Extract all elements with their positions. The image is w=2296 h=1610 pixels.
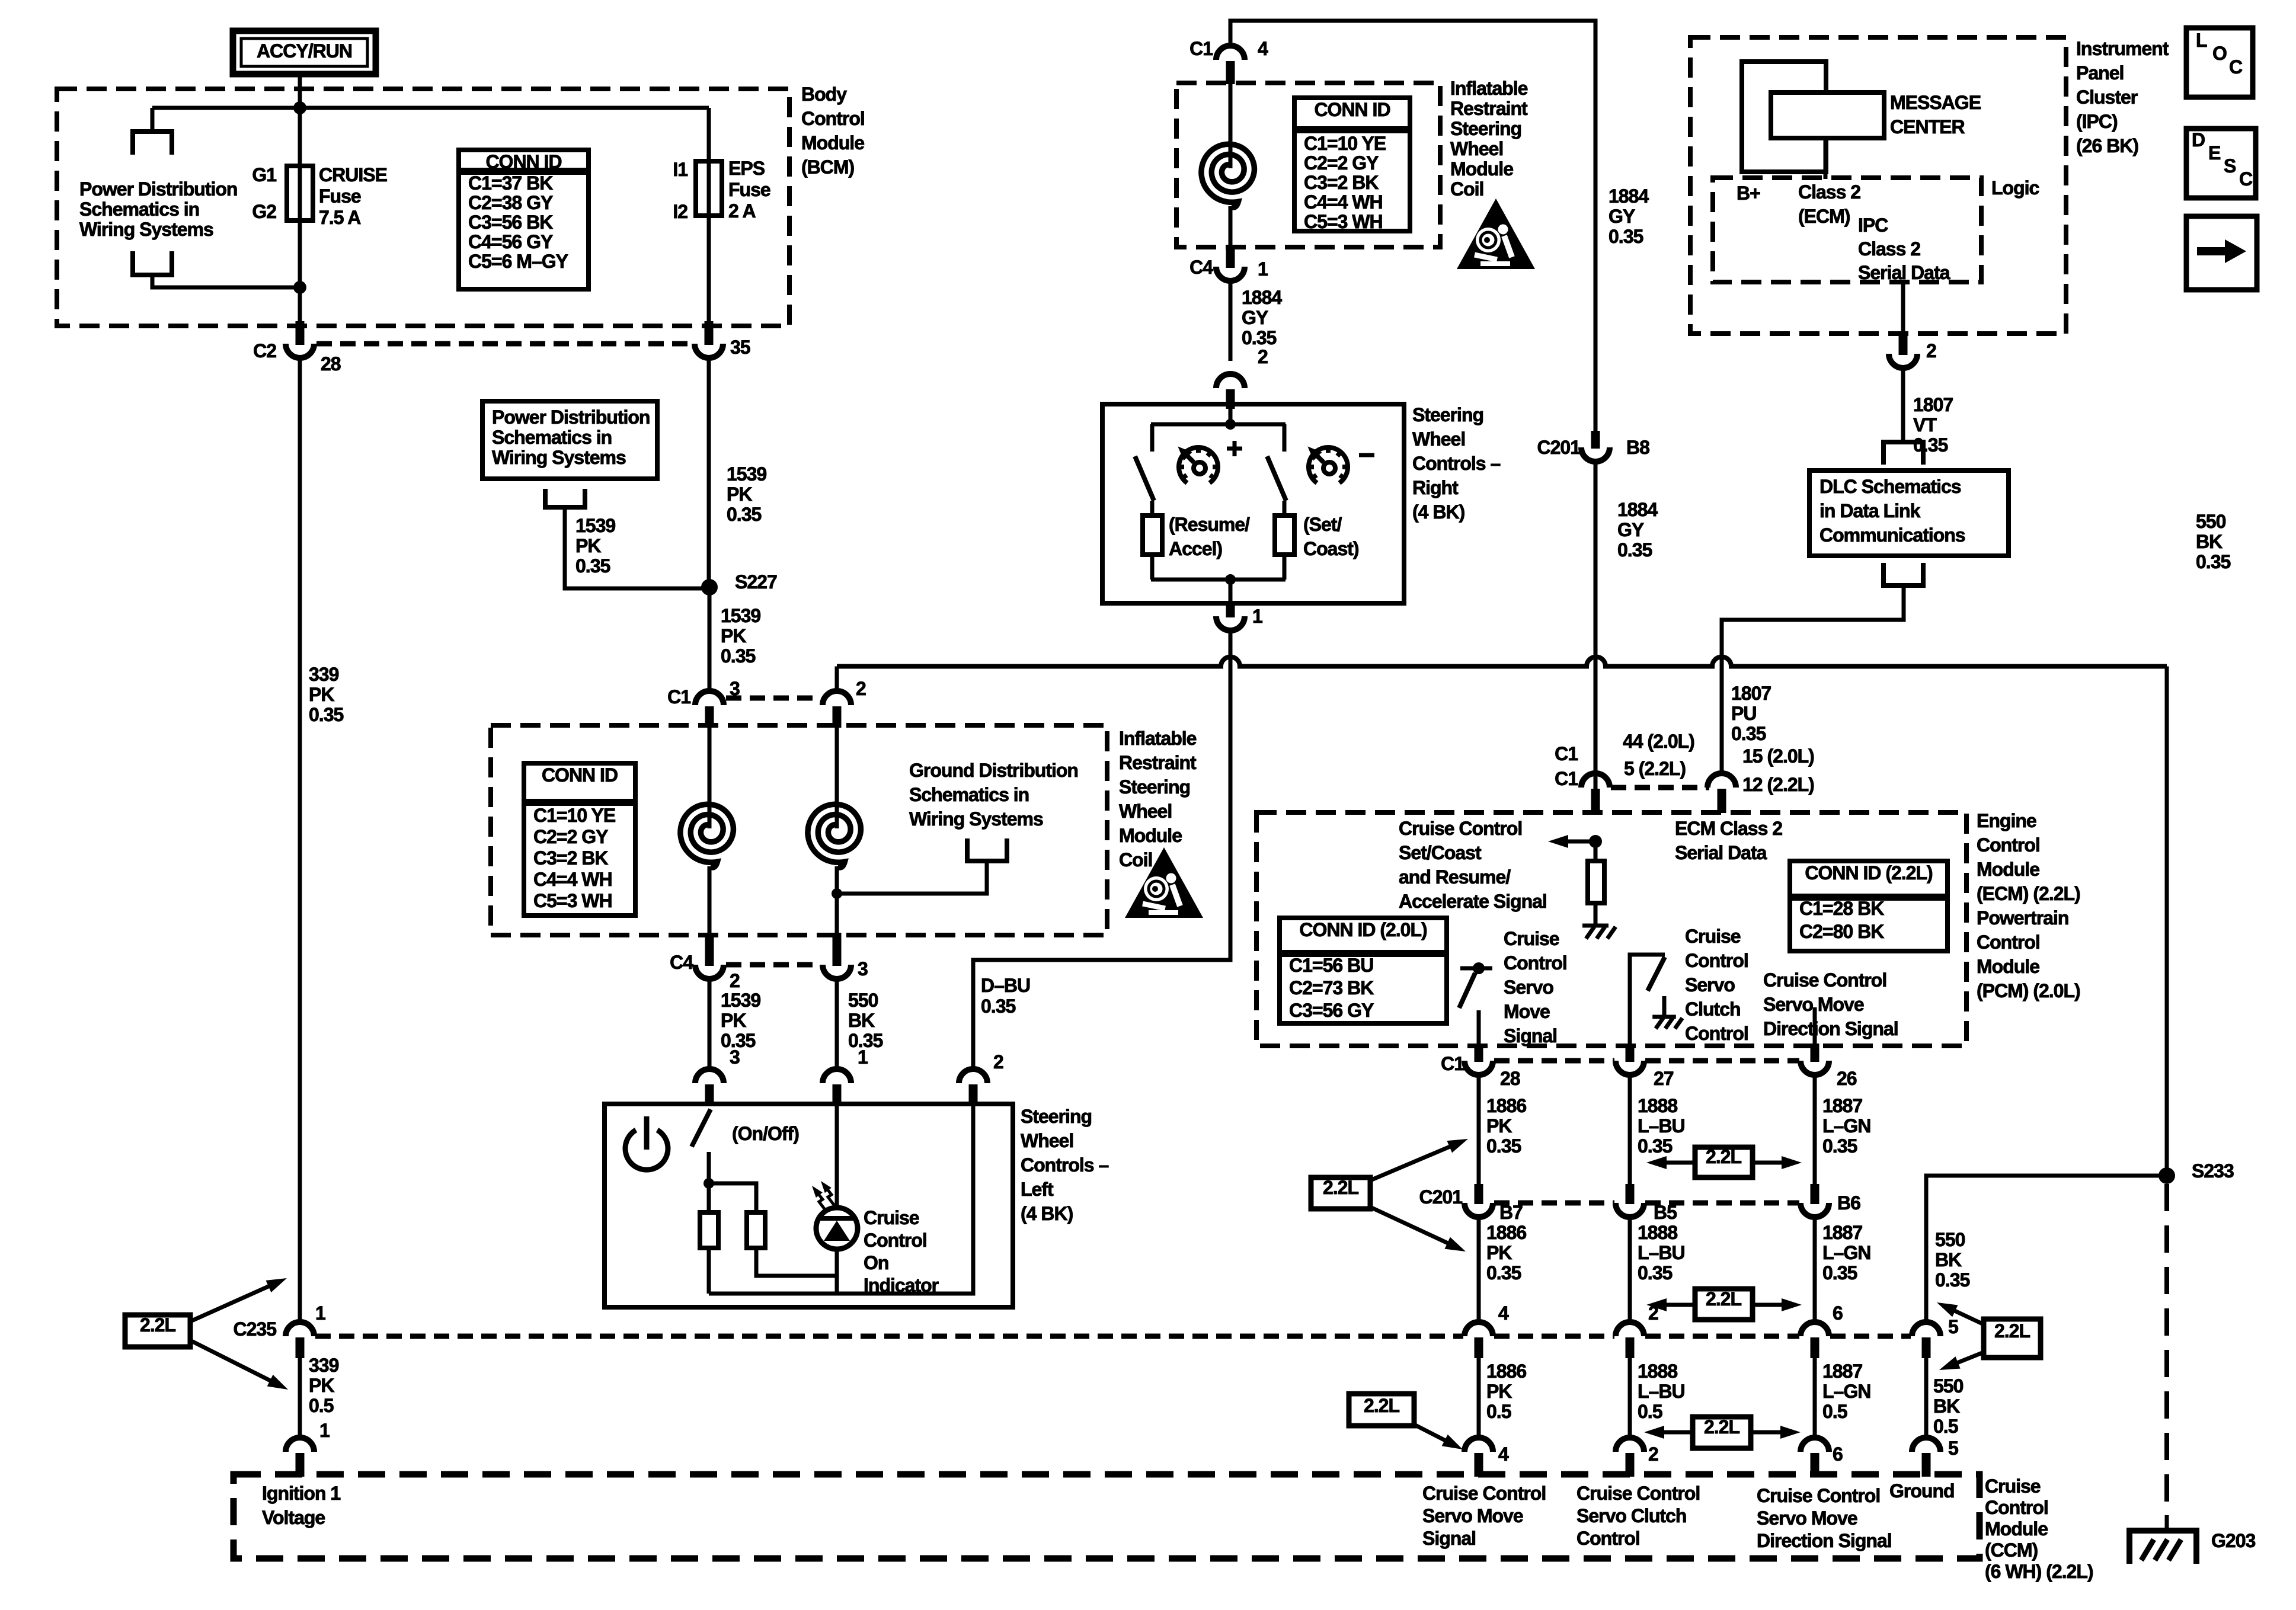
svg-text:BK: BK xyxy=(2196,531,2223,552)
connector line C1-3 to 2 (dashed) xyxy=(726,696,821,701)
svg-text:Module: Module xyxy=(1977,859,2039,880)
svg-text:Wiring Systems: Wiring Systems xyxy=(79,219,213,240)
2.2L flag box (rows 27-26) xyxy=(1695,1147,1753,1177)
svg-text:C1: C1 xyxy=(667,686,690,708)
2.2L arrows (bottom middle) xyxy=(1656,1430,1693,1435)
svg-text:C2=2 GY: C2=2 GY xyxy=(1304,152,1379,174)
svg-text:Servo: Servo xyxy=(1504,977,1553,998)
svg-text:1886: 1886 xyxy=(1486,1095,1526,1116)
svg-text:C201: C201 xyxy=(1537,437,1581,458)
svg-text:Restraint: Restraint xyxy=(1450,98,1528,119)
svg-text:2.2L: 2.2L xyxy=(1323,1177,1358,1198)
svg-text:L–BU: L–BU xyxy=(1638,1381,1685,1402)
svg-text:PK: PK xyxy=(309,1375,334,1396)
svg-text:GY: GY xyxy=(1242,307,1268,328)
wire message center to logic xyxy=(1824,138,1828,179)
svg-text:Accelerate Signal: Accelerate Signal xyxy=(1399,891,1547,912)
svg-text:Servo Move: Servo Move xyxy=(1422,1505,1523,1526)
svg-text:C4: C4 xyxy=(1189,257,1213,278)
module box Instrument Panel Cluster (dashed) xyxy=(1690,37,2066,334)
connector 6 (CCM) xyxy=(1801,1438,1829,1452)
svg-text:44 (2.0L): 44 (2.0L) xyxy=(1623,731,1694,752)
wire main right drop to S233 xyxy=(2165,667,2169,1176)
wire 1887 L-GN C1-C201 xyxy=(1813,1075,1817,1189)
svg-text:PU: PU xyxy=(1731,703,1756,724)
wire D-BU from junction xyxy=(973,630,1230,1069)
connector C1-27 stub xyxy=(1626,1044,1635,1062)
module box ECM/PCM (dashed) xyxy=(1256,812,1966,1046)
connector C201-B6 xyxy=(1801,1203,1829,1217)
wire 1888 L-BU C201-2 xyxy=(1628,1217,1632,1323)
svg-text:(CCM): (CCM) xyxy=(1985,1539,2038,1561)
2.2L flag box (C201 left) xyxy=(1311,1177,1370,1209)
wire main to coil connector 2 xyxy=(835,667,839,693)
svg-text:Direction Signal: Direction Signal xyxy=(1757,1530,1892,1551)
svg-text:C5=6 M–GY: C5=6 M–GY xyxy=(468,251,568,272)
svg-text:Module: Module xyxy=(1450,158,1513,180)
LOC reference box xyxy=(2186,28,2253,97)
svg-text:Wheel: Wheel xyxy=(1412,428,1465,450)
connector 5 (CCM) xyxy=(1912,1438,1940,1452)
svg-text:CONN ID: CONN ID xyxy=(542,764,618,786)
svg-text:1888: 1888 xyxy=(1638,1095,1677,1116)
bracket above DLC box xyxy=(1884,442,1923,465)
svg-text:D–BU: D–BU xyxy=(981,975,1030,996)
wire coil to C4-1 xyxy=(1229,206,1233,254)
svg-text:Class 2: Class 2 xyxy=(1798,181,1860,203)
svg-text:PK: PK xyxy=(721,625,746,646)
svg-text:Schematics in: Schematics in xyxy=(909,784,1029,805)
svg-text:0.35: 0.35 xyxy=(1822,1262,1857,1283)
svg-text:C1: C1 xyxy=(1555,768,1578,789)
connector 1 (CCM) xyxy=(286,1438,314,1452)
wire to ground G203 xyxy=(2165,1515,2169,1529)
svg-text:EPS: EPS xyxy=(728,158,765,179)
resistor R1 (SWC left) xyxy=(700,1212,718,1248)
node bottom bus xyxy=(1225,574,1236,585)
svg-text:Signal: Signal xyxy=(1422,1528,1476,1549)
svg-text:Wiring Systems: Wiring Systems xyxy=(909,808,1043,830)
svg-text:27: 27 xyxy=(1654,1068,1674,1089)
svg-text:Serial Data: Serial Data xyxy=(1675,842,1767,863)
connector 3 (SWC left) xyxy=(695,1069,724,1083)
svg-text:Cruise Control: Cruise Control xyxy=(1757,1485,1880,1506)
connector 1 (SWC left) xyxy=(823,1069,851,1083)
svg-text:G203: G203 xyxy=(2211,1530,2255,1551)
svg-text:Ground Distribution: Ground Distribution xyxy=(909,760,1078,781)
svg-text:Power Distribution: Power Distribution xyxy=(492,406,650,428)
node below CRUISE fuse xyxy=(293,281,306,294)
svg-text:(6 WH) (2.2L): (6 WH) (2.2L) xyxy=(1985,1561,2093,1582)
svg-text:G1: G1 xyxy=(252,164,276,185)
svg-text:Steering: Steering xyxy=(1021,1106,1092,1127)
svg-text:C: C xyxy=(2239,168,2253,190)
svg-text:CONN ID (2.2L): CONN ID (2.2L) xyxy=(1805,862,1933,884)
svg-text:1539: 1539 xyxy=(721,605,760,626)
svg-text:0.35: 0.35 xyxy=(575,555,610,577)
svg-text:1807: 1807 xyxy=(1731,683,1771,704)
svg-text:2.2L: 2.2L xyxy=(1994,1320,2030,1342)
wire coil2 down xyxy=(835,866,839,945)
resistor pullup (ECM) xyxy=(1588,861,1604,903)
module box Inflatable Restraint SWM Coil (upper, dashed) xyxy=(1176,83,1440,247)
svg-text:2.2L: 2.2L xyxy=(140,1314,175,1336)
switch resume/accel contact xyxy=(1150,424,1155,452)
srs airbag warning triangle (lower) xyxy=(1125,847,1203,918)
svg-text:5: 5 xyxy=(1948,1316,1958,1337)
wire 1539 PK to S227 xyxy=(707,358,711,587)
connector C1-28 stub xyxy=(1475,1044,1483,1062)
svg-text:Panel: Panel xyxy=(2076,62,2124,84)
svg-text:2: 2 xyxy=(1926,340,1936,361)
svg-text:Fuse: Fuse xyxy=(728,179,770,200)
svg-text:Wheel: Wheel xyxy=(1450,138,1503,159)
svg-text:Coil: Coil xyxy=(1450,178,1483,200)
svg-text:Powertrain: Powertrain xyxy=(1977,907,2068,929)
switch resume/accel blade xyxy=(1135,456,1154,501)
svg-text:PK: PK xyxy=(309,684,334,705)
svg-text:C2: C2 xyxy=(253,340,276,361)
wire LED column xyxy=(835,1106,839,1294)
svg-text:7.5 A: 7.5 A xyxy=(319,207,361,228)
svg-text:Accel): Accel) xyxy=(1169,538,1222,559)
conn id table ECM 2.0L xyxy=(1280,918,1447,1023)
svg-text:Logic: Logic xyxy=(1991,177,2039,199)
servo move switch blade xyxy=(1459,973,1475,1008)
svg-text:1884: 1884 xyxy=(1609,185,1649,207)
wire resistor to bottom bus (right) xyxy=(1283,555,1287,580)
svg-text:Schematics in: Schematics in xyxy=(492,427,612,448)
connector C201-B5 stub xyxy=(1626,1184,1635,1204)
wire S233 to connector 5 xyxy=(1926,1176,2159,1323)
connector 2 (IPC) xyxy=(1889,354,1917,368)
svg-text:PK: PK xyxy=(1486,1242,1512,1263)
svg-text:B8: B8 xyxy=(1626,437,1649,458)
wire 1539 PK into SWC left xyxy=(708,979,712,1069)
svg-text:S233: S233 xyxy=(2192,1160,2234,1182)
svg-text:(ECM) (2.2L): (ECM) (2.2L) xyxy=(1977,883,2080,904)
svg-text:GY: GY xyxy=(1609,206,1635,227)
svg-text:D: D xyxy=(2192,129,2205,151)
svg-text:Left: Left xyxy=(1021,1179,1054,1200)
svg-text:C5=3 WH: C5=3 WH xyxy=(1304,211,1383,232)
svg-text:Control: Control xyxy=(1977,834,2040,856)
connector C4 pin 1 xyxy=(1216,267,1245,281)
wire into coil 1 xyxy=(708,728,712,828)
wire resistor to bottom bus (left) xyxy=(1150,555,1155,580)
servo clutch blade xyxy=(1648,957,1665,991)
wire S227 to C1-3 xyxy=(708,587,712,692)
svg-text:PK: PK xyxy=(721,1010,746,1031)
wire ACCY/RUN to node xyxy=(298,74,302,108)
2.2L arrows (right) xyxy=(1948,1307,1984,1324)
svg-text:Direction Signal: Direction Signal xyxy=(1763,1018,1898,1039)
svg-text:C2=80 BK: C2=80 BK xyxy=(1799,921,1884,942)
svg-text:1: 1 xyxy=(1258,258,1268,280)
svg-text:3: 3 xyxy=(858,958,868,980)
svg-text:1888: 1888 xyxy=(1638,1361,1677,1382)
svg-text:35: 35 xyxy=(730,337,750,358)
connector 1 (SWC right) xyxy=(1216,616,1245,630)
2.2L flag box (C235) xyxy=(125,1315,190,1347)
ground G203 symbol xyxy=(2129,1531,2196,1564)
svg-text:Controls –: Controls – xyxy=(1412,453,1500,474)
svg-text:1: 1 xyxy=(858,1046,868,1068)
wire 1887 L-GN 0.5 xyxy=(1813,1358,1817,1439)
wire 1888 L-BU C1-C201 xyxy=(1628,1075,1632,1189)
wire exit (SWC right) xyxy=(1229,580,1233,603)
servo clutch wire xyxy=(1630,955,1665,1046)
servo move switch pivot xyxy=(1473,962,1485,974)
svg-text:0.35: 0.35 xyxy=(1486,1262,1521,1283)
arrow reference box xyxy=(2186,216,2257,290)
svg-text:1539: 1539 xyxy=(727,463,766,485)
svg-text:C4: C4 xyxy=(670,952,693,973)
svg-text:339: 339 xyxy=(309,664,339,685)
wire DLC to 1807 PU xyxy=(1722,585,1904,775)
svg-text:Right: Right xyxy=(1412,477,1459,498)
connector 2 (row3) xyxy=(1616,1322,1644,1336)
connector 2 (CCM) xyxy=(1616,1438,1644,1452)
svg-text:5 (2.2L): 5 (2.2L) xyxy=(1624,758,1686,779)
connector C1 pin 3 (into coil box) xyxy=(695,691,724,705)
svg-text:Coil: Coil xyxy=(1119,849,1152,870)
svg-text:0.35: 0.35 xyxy=(1822,1135,1857,1157)
svg-text:339: 339 xyxy=(309,1355,339,1376)
connector 5 (row3) xyxy=(1912,1322,1940,1336)
svg-text:(Set/: (Set/ xyxy=(1303,514,1342,535)
svg-text:C4=56 GY: C4=56 GY xyxy=(468,231,553,252)
svg-text:Schematics in: Schematics in xyxy=(79,199,199,220)
svg-text:Voltage: Voltage xyxy=(262,1507,325,1528)
svg-text:Class 2: Class 2 xyxy=(1858,238,1920,260)
svg-text:L–GN: L–GN xyxy=(1822,1115,1870,1137)
svg-text:4: 4 xyxy=(1258,38,1268,59)
resistor (resume/accel) xyxy=(1143,516,1162,555)
connector C201 B8 xyxy=(1581,447,1610,462)
connector C201-B7 stub xyxy=(1475,1184,1483,1204)
connector C201-B6 stub xyxy=(1811,1184,1819,1204)
svg-text:BK: BK xyxy=(848,1010,875,1031)
svg-text:Body: Body xyxy=(801,84,847,105)
svg-text:(On/Off): (On/Off) xyxy=(732,1123,799,1144)
svg-text:Communications: Communications xyxy=(1819,524,1965,546)
svg-text:0.35: 0.35 xyxy=(2196,551,2230,572)
module box Steering Wheel Controls - Left xyxy=(605,1104,1013,1307)
svg-text:Control: Control xyxy=(1576,1528,1640,1549)
2.2L flag box (rows B5-B6) xyxy=(1695,1289,1753,1320)
module box Inflatable Restraint SWM Coil (dashed) xyxy=(491,725,1107,935)
svg-text:C1: C1 xyxy=(1555,743,1578,764)
svg-text:Cruise: Cruise xyxy=(1504,928,1559,949)
svg-text:0.35: 0.35 xyxy=(309,704,343,725)
connector C201 B8 stub xyxy=(1591,431,1600,449)
svg-text:Cluster: Cluster xyxy=(2076,87,2138,108)
fuse CRUISE 7.5A xyxy=(287,166,313,220)
svg-text:2.2L: 2.2L xyxy=(1706,1288,1741,1310)
wire 1888 L-BU 0.5 xyxy=(1628,1358,1632,1439)
svg-text:Wheel: Wheel xyxy=(1021,1130,1073,1151)
svg-text:GY: GY xyxy=(1617,519,1644,540)
svg-text:Move: Move xyxy=(1504,1001,1550,1022)
cruise indicator LED cathode bar xyxy=(820,1216,853,1221)
svg-text:C5=3 WH: C5=3 WH xyxy=(533,890,612,911)
svg-text:0.35: 0.35 xyxy=(727,504,761,525)
fuse EPS 2A xyxy=(696,161,722,216)
svg-text:Control: Control xyxy=(1685,1023,1748,1044)
svg-text:Module: Module xyxy=(801,132,864,153)
svg-text:Instrument: Instrument xyxy=(2076,38,2169,59)
connector C1 pin 4 xyxy=(1216,46,1245,60)
svg-text:4: 4 xyxy=(1498,1302,1509,1324)
svg-text:Fuse: Fuse xyxy=(319,185,361,207)
svg-text:VT: VT xyxy=(1913,414,1937,436)
svg-text:4: 4 xyxy=(1498,1443,1509,1465)
2.2L flag box (1886) xyxy=(1349,1394,1414,1426)
svg-text:0.5: 0.5 xyxy=(309,1395,334,1416)
svg-text:ACCY/RUN: ACCY/RUN xyxy=(257,40,352,62)
connector C1-26 xyxy=(1801,1061,1829,1075)
power feed label box ACCY/RUN xyxy=(233,31,376,74)
connector C1-26 stub xyxy=(1811,1044,1819,1062)
svg-text:2: 2 xyxy=(1648,1443,1658,1465)
bracket below DLC box xyxy=(1884,563,1923,585)
other-circuit bracket (ground distribution) xyxy=(967,838,1007,861)
svg-text:C1=56 BU: C1=56 BU xyxy=(1289,955,1373,976)
svg-text:Cruise: Cruise xyxy=(864,1207,919,1228)
servo move switch contact xyxy=(1477,1010,1481,1046)
svg-text:2.2L: 2.2L xyxy=(1704,1416,1739,1438)
wire into coil 2 xyxy=(835,728,839,828)
svg-text:Inflatable: Inflatable xyxy=(1119,728,1197,749)
svg-text:Cruise Control: Cruise Control xyxy=(1422,1483,1546,1504)
svg-text:PK: PK xyxy=(727,484,752,505)
connector 4 (CCM) xyxy=(1464,1438,1493,1452)
svg-text:IPC: IPC xyxy=(1858,215,1888,236)
svg-text:and Resume/: and Resume/ xyxy=(1399,866,1511,888)
wire entry (SWC right) xyxy=(1229,409,1233,424)
svg-text:3: 3 xyxy=(730,1046,740,1068)
connector C1 C1 (ECM class2) xyxy=(1581,773,1610,788)
connector 2 (into SWC right) xyxy=(1216,374,1245,388)
conn id table coil box xyxy=(524,763,635,916)
node top bus xyxy=(1225,419,1236,430)
svg-text:12 (2.2L): 12 (2.2L) xyxy=(1742,774,1814,795)
splice S233 xyxy=(2159,1167,2175,1184)
servo move switch bar xyxy=(1460,966,1492,971)
wire bracket to S227 xyxy=(565,507,709,588)
wire bus to EPS fuse xyxy=(152,106,709,110)
svg-text:0.5: 0.5 xyxy=(1822,1401,1847,1422)
svg-text:Cruise: Cruise xyxy=(1985,1475,2041,1497)
conn id table BCM xyxy=(459,150,589,289)
connector C1-27 xyxy=(1616,1061,1644,1075)
svg-text:28: 28 xyxy=(1500,1068,1520,1089)
main wire with hops xyxy=(837,657,2167,667)
svg-text:2: 2 xyxy=(856,678,866,699)
wire to resistor (right) xyxy=(1283,501,1287,516)
svg-text:Ground: Ground xyxy=(1889,1480,1955,1502)
connector 2 (into coil box) xyxy=(823,691,851,705)
svg-text:C235: C235 xyxy=(234,1318,277,1340)
2.2L arrows (C235) xyxy=(190,1283,276,1321)
connector C4 pin 1 stub xyxy=(1226,245,1235,268)
svg-text:C3=2 BK: C3=2 BK xyxy=(1304,172,1379,193)
top bus (SWC right) xyxy=(1151,422,1285,427)
svg-text:(ECM): (ECM) xyxy=(1798,206,1850,227)
svg-text:Control: Control xyxy=(801,108,865,129)
connector 4 (row3) xyxy=(1464,1322,1493,1336)
svg-text:B+: B+ xyxy=(1737,183,1760,204)
node coil ground branch xyxy=(832,888,842,899)
svg-text:6: 6 xyxy=(1833,1302,1843,1324)
svg-text:2.2L: 2.2L xyxy=(1706,1146,1741,1167)
svg-text:CRUISE: CRUISE xyxy=(319,164,388,185)
other-circuit symbol bottom bracket xyxy=(133,251,172,275)
svg-text:Servo Move: Servo Move xyxy=(1757,1507,1857,1529)
gauge icon set/coast xyxy=(1309,447,1348,483)
svg-text:Steering: Steering xyxy=(1119,776,1190,798)
coil spiral (upper) xyxy=(1201,144,1254,207)
node 1884 in ECM xyxy=(1589,835,1602,848)
svg-text:0.35: 0.35 xyxy=(1486,1135,1521,1157)
svg-text:15 (2.0L): 15 (2.0L) xyxy=(1742,745,1814,767)
svg-text:Servo Clutch: Servo Clutch xyxy=(1576,1505,1686,1526)
svg-text:Cruise Control: Cruise Control xyxy=(1763,969,1886,991)
svg-text:C3=2 BK: C3=2 BK xyxy=(533,847,608,869)
svg-text:Controls –: Controls – xyxy=(1021,1154,1108,1176)
cruise indicator LED triangle xyxy=(824,1221,850,1241)
svg-text:Module: Module xyxy=(1977,956,2039,977)
connector 12/15 (ECM serial) xyxy=(1707,773,1736,788)
svg-text:0.35: 0.35 xyxy=(1638,1262,1672,1283)
message center display xyxy=(1771,92,1884,138)
svg-text:1539: 1539 xyxy=(575,515,615,536)
svg-text:28: 28 xyxy=(321,353,341,375)
wire 1887 L-GN C201-6 xyxy=(1813,1217,1817,1323)
connector C4 pin 2 stub xyxy=(705,933,714,966)
connector C235 (dashed row) xyxy=(286,1322,314,1336)
2.2L arrow (1886) xyxy=(1414,1425,1452,1444)
wire resistor to ground xyxy=(1594,903,1598,926)
servo direction wire xyxy=(1813,1007,1817,1046)
connector 3 xyxy=(823,965,851,979)
svg-text:26: 26 xyxy=(1837,1068,1857,1089)
svg-text:2: 2 xyxy=(730,970,740,991)
wire switch to resistors xyxy=(707,1152,711,1212)
wire drop to other-sheet symbol xyxy=(151,108,155,132)
svg-text:L–GN: L–GN xyxy=(1822,1381,1870,1402)
wire through EPS fuse xyxy=(707,108,711,324)
reference box Power Distribution Schematics xyxy=(482,401,657,479)
svg-text:2 A: 2 A xyxy=(728,200,756,222)
wire coil1 to C4-2 xyxy=(708,866,712,945)
svg-text:1539: 1539 xyxy=(721,990,760,1011)
connector C201-B7 xyxy=(1464,1203,1493,1217)
svg-text:Control: Control xyxy=(1685,950,1748,971)
svg-text:C1=10 YE: C1=10 YE xyxy=(533,805,616,826)
svg-text:0.35: 0.35 xyxy=(1242,327,1276,348)
switch on/off blade xyxy=(692,1109,711,1147)
svg-text:550: 550 xyxy=(848,990,878,1011)
svg-text:C1=28 BK: C1=28 BK xyxy=(1799,898,1884,919)
svg-text:CONN ID: CONN ID xyxy=(485,151,561,172)
svg-text:C1: C1 xyxy=(1441,1053,1464,1074)
svg-text:1886: 1886 xyxy=(1486,1222,1526,1243)
svg-text:L–BU: L–BU xyxy=(1638,1115,1685,1137)
svg-text:Servo: Servo xyxy=(1685,974,1735,996)
svg-text:ECM Class 2: ECM Class 2 xyxy=(1675,818,1782,839)
